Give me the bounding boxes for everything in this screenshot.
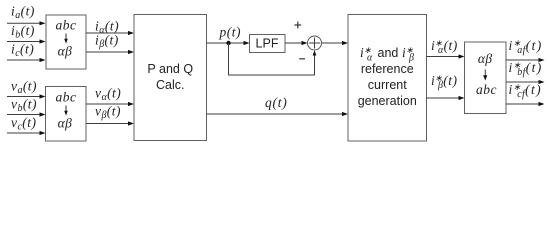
svg-text:ia(t): ia(t) — [11, 4, 35, 22]
svg-text:LPF: LPF — [256, 37, 279, 51]
svg-text:abc: abc — [56, 18, 77, 33]
wire v_alpha — [86, 102, 134, 106]
svg-text:va(t): va(t) — [11, 79, 37, 97]
wire i_a input — [7, 21, 46, 25]
wire v_b input — [7, 112, 46, 116]
svg-text:current: current — [368, 78, 407, 92]
wire i*_beta U5 to U6 — [427, 96, 465, 100]
svg-text:vβ(t): vβ(t) — [95, 104, 121, 122]
svg-text:αβ: αβ — [58, 116, 73, 131]
wire v_beta — [86, 121, 134, 125]
svg-text:abc: abc — [56, 90, 77, 105]
node p junction dot — [226, 41, 230, 45]
wire i_beta — [86, 50, 134, 54]
block U6 alpha-beta to abc — [465, 42, 507, 114]
label minus sign — [299, 58, 305, 60]
svg-text:vc(t): vc(t) — [11, 115, 37, 133]
svg-text:vα(t): vα(t) — [95, 86, 121, 104]
svg-text:q(t): q(t) — [265, 95, 288, 110]
wire v_a input — [7, 94, 46, 98]
block U3 P and Q Calc. — [134, 15, 207, 141]
wire LPF to summer — [285, 41, 308, 45]
svg-text:reference: reference — [361, 62, 414, 76]
svg-text:iβ(t): iβ(t) — [95, 33, 119, 51]
svg-text:αβ: αβ — [58, 44, 73, 59]
wire i*_alpha U5 to U6 — [427, 54, 465, 58]
block U1 abc to alpha-beta (currents) — [46, 15, 86, 69]
block U2 abc to alpha-beta (voltages) — [46, 87, 87, 142]
svg-text:p(t): p(t) — [219, 25, 242, 40]
wire v_c input — [7, 131, 46, 135]
wire i*_bf output — [506, 80, 545, 84]
label plus sign — [294, 22, 301, 29]
svg-text:ib(t): ib(t) — [11, 23, 35, 41]
svg-text:generation: generation — [358, 94, 417, 108]
svg-text:vb(t): vb(t) — [11, 97, 37, 115]
svg-text:and: and — [378, 46, 399, 60]
wire summer to U5 — [322, 41, 349, 45]
wire i*_cf output — [506, 102, 545, 106]
block U5 reference current generation — [348, 15, 427, 142]
svg-text:αβ: αβ — [478, 51, 493, 66]
svg-text:ic(t): ic(t) — [11, 42, 34, 60]
svg-text:P and Q: P and Q — [147, 62, 193, 76]
svg-text:abc: abc — [476, 82, 497, 97]
svg-text:Calc.: Calc. — [156, 78, 184, 92]
block U4 LPF — [250, 35, 286, 53]
summer S1 circle with plus — [308, 36, 322, 50]
wire i_b input — [7, 39, 46, 43]
wire q(t) from U3 to U5 — [207, 112, 349, 116]
wire p(t) from U3 to LPF — [207, 41, 250, 45]
wire i*_af output — [506, 58, 545, 62]
wire feedback p to summer minus input — [229, 43, 317, 75]
wire i_alpha — [86, 31, 134, 35]
wire i_c input — [7, 58, 46, 62]
